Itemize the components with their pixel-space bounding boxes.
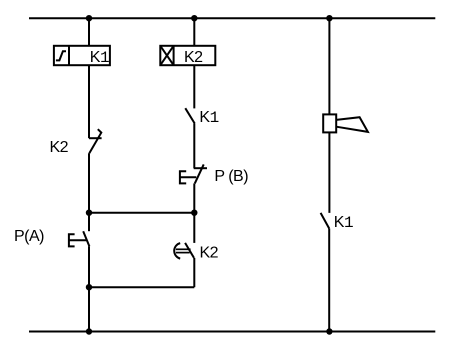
junction dot top rail / buzzer branch — [326, 15, 332, 21]
wire: contact K1 to pushbutton P(B) — [193, 124, 195, 169]
svg-text:K1: K1 — [90, 49, 109, 67]
relay coil K2 (with switch-off delay symbol) — [160, 46, 215, 66]
wire: node B to delayed contact K2 — [193, 213, 195, 243]
break contact K2 (NC) — [89, 129, 102, 153]
wire: link node A to node B — [89, 212, 194, 214]
wire: contact K1 to bottom rail — [328, 229, 330, 332]
delayed make contact K2 (NO, off-delay) — [174, 243, 194, 259]
pushbutton P(A) make contact — [69, 231, 90, 246]
node A junction dot — [86, 210, 92, 216]
wire: contact K2 down to bottom link — [193, 258, 195, 287]
wire: P(A) to node C — [88, 246, 90, 287]
svg-text:K2: K2 — [184, 49, 203, 66]
junction dot top rail / K2 branch — [191, 15, 197, 21]
svg-text:P (B): P (B) — [214, 168, 248, 185]
make contact K1 (NO) — [321, 213, 330, 229]
junction dot bottom rail / right branch — [326, 328, 332, 334]
make contact K1 (NO) — [185, 108, 194, 123]
wire: top rail to coil K1 — [88, 18, 90, 46]
relay coil K1 (with switch-on delay symbol) — [54, 46, 110, 67]
svg-text:K2: K2 — [50, 139, 69, 156]
pushbutton P(B) break contact (NC) — [180, 164, 207, 183]
wire: bottom link to node C — [89, 286, 194, 288]
svg-text:K2: K2 — [200, 244, 219, 261]
top supply rail — [29, 17, 435, 19]
wire: P(B) to node B — [193, 183, 195, 212]
wire: coil K1 to contact K2 — [88, 65, 90, 138]
buzzer H1 — [323, 114, 368, 132]
wire: coil K2 to contact K1 — [193, 65, 195, 108]
wire: contact K2 to node A — [88, 153, 90, 213]
junction dot bottom rail / left branch — [86, 328, 92, 334]
wire: node C to bottom rail — [88, 287, 90, 331]
svg-text:K1: K1 — [334, 214, 353, 232]
svg-text:P(A): P(A) — [14, 228, 44, 245]
wire: top rail to buzzer — [328, 18, 330, 114]
wire: top rail to coil K2 — [193, 18, 195, 46]
wire: buzzer to contact K1 — [328, 132, 330, 213]
node C junction dot — [86, 284, 92, 290]
node B junction dot — [191, 210, 197, 216]
svg-text:K1: K1 — [199, 109, 218, 127]
bottom supply rail — [29, 331, 435, 333]
wire: node A to pushbutton P(A) — [88, 213, 90, 232]
junction dot top rail / K1 branch — [86, 15, 92, 21]
